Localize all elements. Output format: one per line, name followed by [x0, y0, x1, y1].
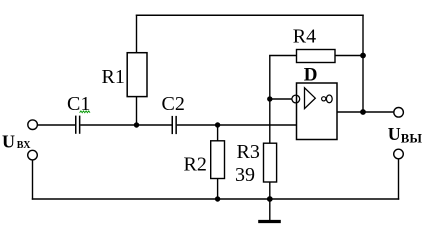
- svg-text:D: D: [304, 65, 318, 86]
- svg-text:R1: R1: [102, 66, 125, 88]
- output terminal lower: [394, 149, 404, 159]
- wire to inverting input: [270, 98, 292, 100]
- wire R1 top lead: [136, 15, 138, 53]
- wire inverting input vertical (R4/R3/op-amp node): [269, 56, 271, 144]
- bottom rail wire: [32, 198, 399, 200]
- capacitor C2 plate left: [171, 116, 173, 134]
- resistor R4: [297, 50, 336, 63]
- svg-text:ВЫ: ВЫ: [401, 132, 423, 146]
- svg-text:U: U: [388, 124, 401, 144]
- wire R4 left lead: [269, 55, 296, 57]
- ground stem: [269, 199, 271, 220]
- wire top feedback horizontal: [136, 14, 364, 16]
- svg-text:39: 39: [235, 164, 255, 186]
- svg-text:R3: R3: [237, 141, 260, 163]
- capacitor C1 plate left: [75, 116, 77, 134]
- ground junction dot: [267, 196, 273, 202]
- wire R3 bottom lead: [269, 182, 271, 199]
- node A junction dot: [134, 122, 139, 127]
- output junction dot: [360, 109, 366, 115]
- wire input lower terminal to bottom rail: [32, 160, 34, 200]
- wire R4 right lead: [335, 55, 364, 57]
- inversion circle at op-amp input: [292, 95, 300, 103]
- capacitor C2 plate right: [175, 116, 177, 134]
- output terminal upper: [394, 108, 404, 118]
- infinity gain symbol left loop: [322, 97, 326, 101]
- svg-text:C2: C2: [162, 93, 185, 115]
- capacitor C1 plate right: [79, 116, 81, 134]
- op-amp U1 box: [297, 83, 338, 140]
- inverting input junction dot: [267, 96, 272, 101]
- wire output lower terminal to bottom rail: [398, 159, 400, 200]
- R4 output junction dot: [360, 53, 366, 59]
- svg-text:R2: R2: [184, 154, 207, 176]
- node B junction dot: [215, 122, 220, 127]
- wire C1 to C2 (node A): [80, 124, 171, 126]
- op-amp triangle: [305, 88, 316, 109]
- svg-text:R4: R4: [293, 26, 316, 48]
- wire R2 top lead: [217, 125, 219, 141]
- resistor R3: [264, 143, 277, 182]
- wire C2 to op-amp lower input: [177, 124, 297, 126]
- wire R2 bottom lead: [217, 179, 219, 200]
- ground bar: [258, 220, 281, 223]
- input terminal upper: [28, 120, 38, 130]
- svg-text:ВХ: ВХ: [17, 140, 31, 151]
- wire input to C1: [38, 124, 76, 126]
- resistor R1: [127, 53, 147, 97]
- infinity gain symbol right loop: [326, 95, 332, 103]
- R2 bottom junction dot: [215, 196, 220, 201]
- wire op-amp output: [337, 111, 393, 113]
- svg-text:U: U: [2, 131, 15, 151]
- wire R1 bottom lead: [136, 97, 138, 125]
- input terminal lower: [28, 150, 38, 160]
- spellcheck squiggle under C1: [80, 111, 90, 113]
- resistor R2: [211, 141, 225, 179]
- wire feedback right vertical: [362, 15, 364, 112]
